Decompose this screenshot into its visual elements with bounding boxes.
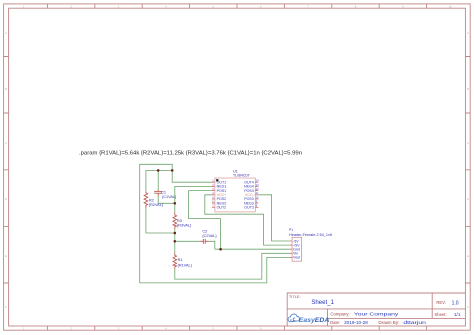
svg-text:OUT3: OUT3 <box>244 206 254 210</box>
svg-text:1.0: 1.0 <box>452 300 459 306</box>
junction POS1 to ground rail <box>219 248 222 251</box>
op-amp U1 TL084CDT body <box>215 178 255 212</box>
wire VCC- to header -5V <box>258 195 289 241</box>
op-amp U1 left pin numbers <box>212 179 214 208</box>
header P1 labels <box>289 228 332 237</box>
title block TITLE text <box>289 294 335 306</box>
title block Date row <box>330 320 427 325</box>
resistor R2 labels <box>149 199 164 207</box>
EasyEDA logo <box>288 314 329 324</box>
title block Company row <box>331 311 400 316</box>
svg-text:P1: P1 <box>289 228 293 232</box>
svg-text:D: D <box>5 197 7 201</box>
svg-text:EasyEDA: EasyEDA <box>299 317 330 324</box>
svg-text:C: C <box>467 141 469 145</box>
svg-text:B: B <box>5 87 7 91</box>
title block Sheet cell <box>435 312 461 317</box>
svg-text:.param {R1VAL}=5.64k {R2VAL}=1: .param {R1VAL}=5.64k {R2VAL}=11.25k {R3V… <box>79 151 302 157</box>
svg-text:Date:: Date: <box>330 320 340 325</box>
svg-text:dttarjun: dttarjun <box>403 320 426 325</box>
op-amp U1 right pin names <box>244 180 255 209</box>
svg-text:E: E <box>5 254 7 258</box>
resistor R3 labels <box>177 219 192 227</box>
wire OUT1 node inner branch to R2/C1 tops <box>146 170 172 191</box>
op-amp U1 left pin stubs (pins 1-7) <box>212 182 215 207</box>
svg-text:D: D <box>467 197 469 201</box>
svg-text:Sheet_1: Sheet_1 <box>311 300 334 306</box>
capacitor C2 <box>200 239 209 244</box>
wire VCC+ to header +5V <box>205 195 289 245</box>
title block REV cell <box>436 300 458 306</box>
header P1 pin names <box>293 239 300 259</box>
svg-text:10: 10 <box>449 5 452 9</box>
svg-text:{R2VAL}: {R2VAL} <box>149 203 164 207</box>
svg-text:A: A <box>5 31 7 35</box>
svg-text:Header-Female-2.54_1x5: Header-Female-2.54_1x5 <box>289 233 332 237</box>
svg-text:Sheet:: Sheet: <box>435 312 447 317</box>
wire POS1 to ground rail <box>189 191 221 250</box>
resistor R3 <box>173 212 177 229</box>
wire R3 bottom node to C2 and R1 <box>175 229 215 252</box>
wire ground rail to header Gnd <box>215 248 289 250</box>
resistor R1 <box>173 253 177 270</box>
capacitor C2 labels <box>202 230 217 238</box>
op-amp U1 right pin numbers <box>256 179 259 208</box>
svg-text:2019-10-28: 2019-10-28 <box>344 320 368 325</box>
svg-text:Drawn By:: Drawn By: <box>378 320 399 325</box>
wire R2 bottom chain <box>146 209 175 233</box>
svg-text:Company:: Company: <box>331 311 350 316</box>
svg-text:{R3VAL}: {R3VAL} <box>177 223 192 227</box>
svg-text:Your Company: Your Company <box>354 311 399 316</box>
svg-text:TL084CDT: TL084CDT <box>233 174 250 178</box>
svg-text:C: C <box>5 141 7 145</box>
title block outline <box>287 293 465 326</box>
svg-text:Vout: Vout <box>293 256 300 260</box>
op-amp U1 reference labels <box>233 170 250 178</box>
junction node NEG1/C1/R3 <box>174 202 177 205</box>
resistor R2 <box>144 191 148 208</box>
capacitor C1 <box>154 190 162 196</box>
svg-text:R1: R1 <box>178 258 183 262</box>
svg-text:E: E <box>467 254 469 258</box>
svg-text:A: A <box>467 31 469 35</box>
svg-text:C1: C1 <box>161 190 166 194</box>
svg-text:B: B <box>467 87 469 91</box>
header P1 body <box>292 237 301 261</box>
svg-text:OUT2: OUT2 <box>217 206 227 210</box>
op-amp U1 right pin stubs (pins 14-8) <box>255 182 258 207</box>
svg-text:TITLE:: TITLE: <box>289 294 301 299</box>
junction at OUT1 feedback corner <box>171 169 174 172</box>
resistor R1 labels <box>178 258 193 267</box>
svg-text:{C1VAL}: {C1VAL} <box>162 195 177 199</box>
svg-text:1/1: 1/1 <box>454 312 461 317</box>
wire R1 bottom to Vin <box>175 253 289 279</box>
svg-text:{R1VAL}: {R1VAL} <box>178 263 193 267</box>
op-amp U1 left pin names <box>217 181 227 210</box>
junction at C1 top / OUT1 net <box>157 169 160 172</box>
svg-text:{C2VAL}: {C2VAL} <box>202 234 217 238</box>
wire NEG1 to R3/C1 node <box>158 186 212 212</box>
header P1 pin stubs (1-5) <box>289 241 292 257</box>
capacitor C1 labels <box>161 190 177 199</box>
junction node C2/R1 top <box>174 240 177 243</box>
wire Vout/OUT1 feedback outer loop <box>140 164 290 283</box>
svg-text:REV:: REV: <box>436 300 446 305</box>
junction node R2/R3 bottom <box>174 232 177 235</box>
